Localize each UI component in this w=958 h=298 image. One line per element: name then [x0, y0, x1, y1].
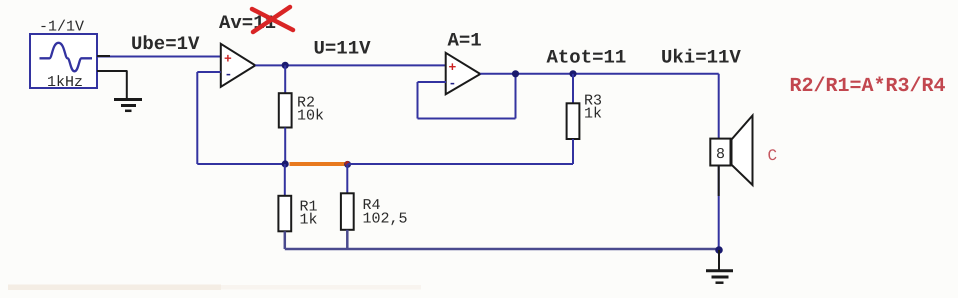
U2 feedback loop: [418, 74, 516, 119]
voltage generator VG1: [30, 34, 97, 88]
svg-text:-: -: [225, 67, 233, 82]
bottom rail wire: [285, 248, 719, 251]
svg-text:-: -: [449, 76, 457, 91]
node A (U1 output): [282, 62, 289, 69]
svg-text:1k: 1k: [300, 212, 318, 229]
resistor R1: [278, 164, 291, 249]
svg-text:Uki=11V: Uki=11V: [661, 47, 741, 69]
wire generator output to op-amp U1 + input: [97, 55, 222, 58]
orange wire segment: [290, 162, 347, 166]
speaker SP1: [710, 116, 752, 186]
ground (speaker): [706, 271, 733, 283]
svg-text:U=11V: U=11V: [314, 38, 372, 60]
op-amp U1: [221, 44, 256, 87]
junction node (R2/R1/feedback): [282, 160, 289, 167]
wire U2 output to speaker: [480, 74, 718, 139]
svg-text:-1/1V: -1/1V: [39, 19, 84, 36]
svg-text:Atot=11: Atot=11: [547, 47, 627, 69]
wire generator to ground: [97, 71, 128, 99]
node Atot: [569, 70, 576, 77]
junction node (R4): [344, 161, 351, 168]
svg-text:R2/R1=A*R3/R4: R2/R1=A*R3/R4: [790, 75, 946, 98]
svg-text:+: +: [224, 52, 232, 67]
ground node: [715, 246, 723, 254]
resistor R2: [279, 65, 292, 164]
node U2 output: [512, 70, 519, 77]
faint warm bar bottom-left: [8, 285, 221, 291]
ground stub: [718, 250, 720, 270]
svg-text:1kHz: 1kHz: [47, 74, 83, 91]
wire speaker to ground node: [718, 166, 720, 251]
svg-text:8: 8: [716, 146, 725, 163]
wire U1 output to U2 + input: [255, 64, 446, 66]
svg-text:1k: 1k: [584, 106, 602, 123]
wire junction to R3 bottom: [348, 163, 574, 165]
svg-text:+: +: [449, 60, 457, 75]
svg-text:C: C: [768, 147, 778, 165]
svg-text:10k: 10k: [297, 108, 324, 125]
ground (generator): [114, 100, 142, 111]
resistor R4: [341, 164, 354, 249]
svg-text:Ube=1V: Ube=1V: [131, 33, 200, 55]
op-amp U2: [446, 53, 481, 95]
red X over Av value: [252, 7, 293, 32]
wire U1 inverting input / feedback: [197, 72, 285, 164]
resistor R3: [567, 74, 580, 164]
svg-text:A=1: A=1: [448, 30, 482, 52]
svg-text:102,5: 102,5: [363, 211, 408, 228]
